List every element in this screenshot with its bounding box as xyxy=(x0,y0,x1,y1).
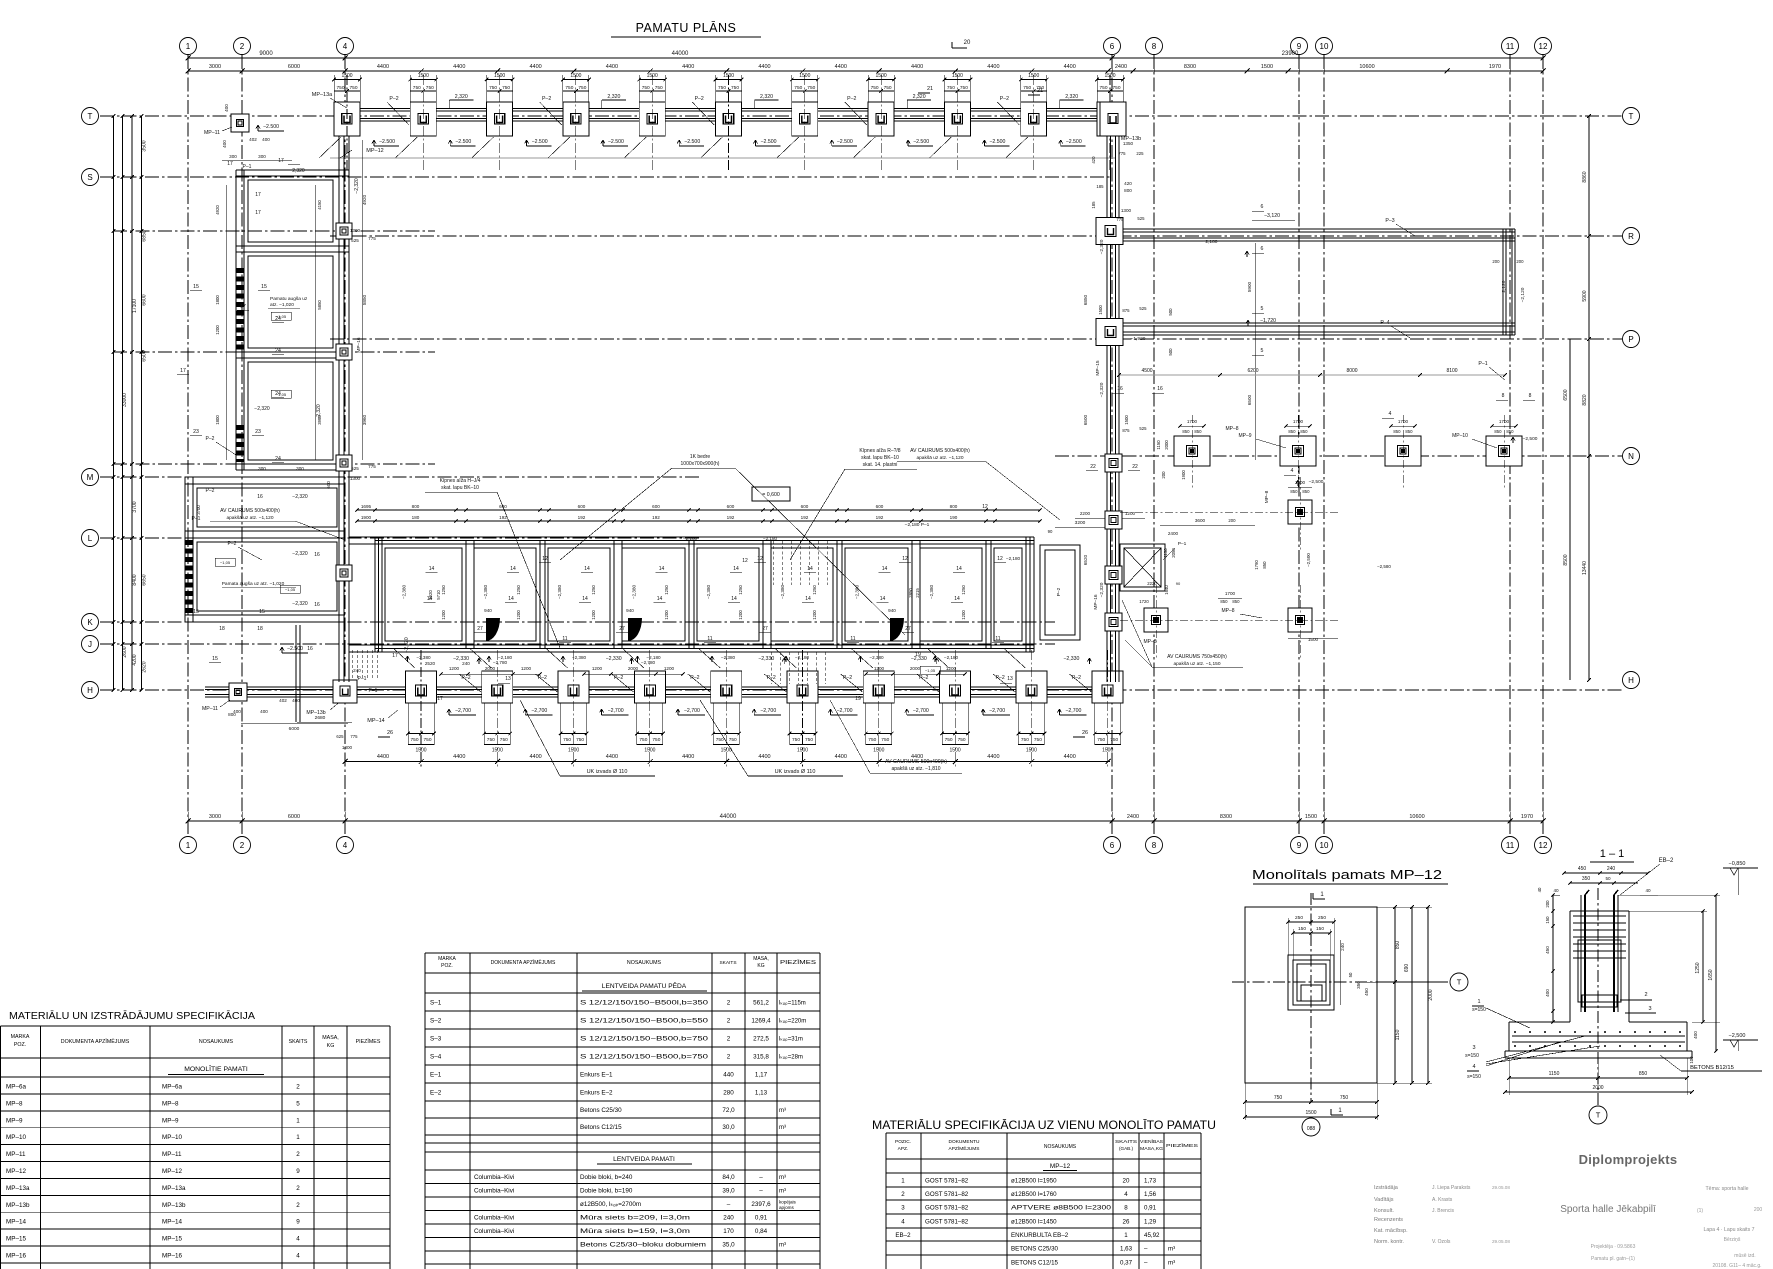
svg-text:1250: 1250 xyxy=(591,585,596,595)
svg-text:940: 940 xyxy=(626,608,634,613)
svg-text:16: 16 xyxy=(257,494,263,500)
svg-text:VIENĪBAS: VIENĪBAS xyxy=(1140,1139,1163,1144)
svg-text:1640: 1640 xyxy=(1164,585,1169,595)
svg-text:−2,380: −2,380 xyxy=(869,655,884,660)
svg-text:8300: 8300 xyxy=(1184,64,1196,70)
svg-text:4400: 4400 xyxy=(606,64,618,70)
svg-text:6600: 6600 xyxy=(142,294,148,305)
svg-text:750: 750 xyxy=(410,737,418,743)
svg-text:6: 6 xyxy=(1110,42,1115,51)
svg-text:14: 14 xyxy=(805,596,811,602)
svg-text:1700: 1700 xyxy=(1295,480,1306,485)
svg-text:MP–8: MP–8 xyxy=(6,1100,23,1107)
svg-text:15: 15 xyxy=(193,284,199,290)
svg-text:4400: 4400 xyxy=(758,754,770,760)
svg-text:14: 14 xyxy=(582,596,588,602)
svg-text:240: 240 xyxy=(462,661,470,666)
svg-text:1250: 1250 xyxy=(441,585,446,595)
svg-text:20: 20 xyxy=(964,40,971,46)
svg-text:1: 1 xyxy=(1477,999,1480,1005)
svg-text:1700: 1700 xyxy=(1187,419,1198,424)
svg-text:P–4: P–4 xyxy=(1380,320,1389,326)
svg-text:4400: 4400 xyxy=(377,754,389,760)
svg-text:P–2: P–2 xyxy=(695,96,704,102)
svg-text:MONOLĪTIE PAMATI: MONOLĪTIE PAMATI xyxy=(184,1065,248,1073)
svg-text:1150: 1150 xyxy=(1395,1029,1401,1040)
svg-text:Lapa 4 · Lapu skaits 7: Lapa 4 · Lapu skaits 7 xyxy=(1703,1227,1754,1233)
svg-text:750: 750 xyxy=(871,85,879,91)
svg-text:2000: 2000 xyxy=(485,666,496,671)
svg-text:2200: 2200 xyxy=(1080,511,1091,516)
svg-text:12: 12 xyxy=(1539,42,1548,51)
svg-text:2520: 2520 xyxy=(425,661,436,666)
svg-text:2000: 2000 xyxy=(628,666,639,671)
svg-text:16: 16 xyxy=(307,646,313,652)
svg-text:525: 525 xyxy=(351,466,359,471)
svg-text:MP–8: MP–8 xyxy=(162,1100,179,1107)
svg-text:14: 14 xyxy=(429,566,435,572)
svg-text:0,37: 0,37 xyxy=(1120,1259,1133,1266)
svg-text:1800: 1800 xyxy=(215,415,220,425)
svg-text:DOKUMENTA APZĪMĒJUMS: DOKUMENTA APZĪMĒJUMS xyxy=(61,1038,130,1045)
svg-text:15: 15 xyxy=(261,284,267,290)
svg-text:5850: 5850 xyxy=(317,300,322,310)
svg-text:4: 4 xyxy=(1389,411,1392,417)
svg-text:4400: 4400 xyxy=(987,64,999,70)
svg-text:525: 525 xyxy=(1139,426,1147,431)
svg-text:−2,380: −2,380 xyxy=(721,655,736,660)
svg-text:3: 3 xyxy=(1648,1006,1651,1012)
svg-text:4500: 4500 xyxy=(1141,368,1152,374)
svg-text:850: 850 xyxy=(1494,429,1502,434)
svg-text:800: 800 xyxy=(1124,188,1132,193)
svg-text:6520: 6520 xyxy=(1083,554,1088,565)
svg-text:−2,380: −2,380 xyxy=(632,584,637,599)
svg-text:775: 775 xyxy=(350,734,358,739)
svg-text:750: 750 xyxy=(868,737,876,743)
svg-text:402: 402 xyxy=(279,698,287,703)
svg-text:Enkurs E–1: Enkurs E–1 xyxy=(580,1071,613,1078)
svg-text:6000: 6000 xyxy=(288,64,300,70)
svg-text:170: 170 xyxy=(723,1228,734,1235)
svg-text:Monolītals pamats MP–12: Monolītals pamats MP–12 xyxy=(1252,867,1442,882)
svg-text:2,320: 2,320 xyxy=(1065,94,1078,100)
svg-text:600: 600 xyxy=(876,504,884,509)
svg-text:Betons C12/15: Betons C12/15 xyxy=(580,1124,622,1131)
svg-text:6500: 6500 xyxy=(1083,414,1088,425)
svg-text:Columbia–Kivi: Columbia–Kivi xyxy=(474,1174,514,1181)
svg-text:apakšā uz atz. −1,810: apakšā uz atz. −1,810 xyxy=(891,766,940,772)
svg-text:P–2: P–2 xyxy=(228,541,237,547)
svg-text:350: 350 xyxy=(1582,876,1591,882)
svg-text:1269,4: 1269,4 xyxy=(751,1017,771,1024)
svg-text:850: 850 xyxy=(1232,599,1240,604)
svg-text:2600: 2600 xyxy=(122,646,128,657)
svg-text:750: 750 xyxy=(881,737,889,743)
svg-text:750: 750 xyxy=(576,737,584,743)
svg-text:MATERIĀLU SPECIFIKĀCIJA UZ VIE: MATERIĀLU SPECIFIKĀCIJA UZ VIENU MONOLĪT… xyxy=(872,1118,1216,1132)
svg-text:2400: 2400 xyxy=(1127,814,1139,820)
svg-text:MP–13a: MP–13a xyxy=(162,1185,186,1192)
svg-text:1300: 1300 xyxy=(342,745,353,750)
svg-text:525: 525 xyxy=(1137,216,1145,221)
svg-text:APZ.: APZ. xyxy=(898,1146,909,1152)
svg-text:8000: 8000 xyxy=(1346,368,1357,374)
svg-text:750: 750 xyxy=(960,85,968,91)
svg-text:POZ.: POZ. xyxy=(441,963,453,969)
svg-text:2220: 2220 xyxy=(1147,581,1157,586)
svg-text:750: 750 xyxy=(716,737,724,743)
svg-text:1500: 1500 xyxy=(1305,1110,1316,1116)
svg-text:2: 2 xyxy=(296,1151,300,1158)
svg-text:200: 200 xyxy=(1545,900,1550,908)
svg-text:Mūra siets b=159, l=3,0m: Mūra siets b=159, l=3,0m xyxy=(580,1228,690,1235)
svg-text:MP–6a: MP–6a xyxy=(6,1084,26,1091)
svg-text:1500: 1500 xyxy=(647,73,658,79)
svg-text:3600: 3600 xyxy=(1195,518,1206,523)
svg-text:180: 180 xyxy=(412,515,420,520)
svg-text:8500: 8500 xyxy=(1563,554,1569,565)
svg-text:1,13: 1,13 xyxy=(755,1089,768,1096)
svg-text:1500: 1500 xyxy=(950,748,961,754)
svg-text:5900: 5900 xyxy=(1247,281,1252,292)
svg-text:400: 400 xyxy=(1693,1031,1698,1039)
svg-text:1500: 1500 xyxy=(1098,305,1103,315)
svg-text:−2,180: −2,180 xyxy=(944,655,959,660)
svg-text:−2,320: −2,320 xyxy=(1099,582,1105,597)
svg-text:MP–10: MP–10 xyxy=(162,1134,182,1141)
svg-text:−2,180: −2,180 xyxy=(1203,239,1218,245)
svg-text:23: 23 xyxy=(255,429,261,435)
svg-text:BETONS C12/15: BETONS C12/15 xyxy=(1011,1259,1059,1266)
svg-text:ø12B500 l=1760: ø12B500 l=1760 xyxy=(1011,1191,1057,1198)
svg-text:−2,380: −2,380 xyxy=(416,655,431,660)
svg-text:4400: 4400 xyxy=(529,64,541,70)
svg-text:MP–14: MP–14 xyxy=(6,1219,26,1226)
svg-text:850: 850 xyxy=(1300,429,1308,434)
svg-text:−2,380: −2,380 xyxy=(780,584,785,599)
svg-text:850: 850 xyxy=(1506,429,1514,434)
svg-text:1150: 1150 xyxy=(1549,1071,1560,1077)
svg-text:14: 14 xyxy=(657,596,663,602)
svg-text:−2,320: −2,320 xyxy=(292,601,308,607)
svg-text:400: 400 xyxy=(224,104,229,112)
svg-text:1700: 1700 xyxy=(1293,419,1304,424)
svg-text:875: 875 xyxy=(1122,428,1130,433)
svg-text:5: 5 xyxy=(296,1100,300,1107)
svg-text:2000: 2000 xyxy=(910,666,921,671)
svg-text:Kat. mācībsp.: Kat. mācībsp. xyxy=(1374,1228,1408,1234)
svg-text:315,8: 315,8 xyxy=(753,1053,769,1060)
svg-text:R: R xyxy=(1628,232,1634,241)
svg-text:2400: 2400 xyxy=(1115,64,1127,70)
svg-text:850: 850 xyxy=(1639,1071,1648,1077)
svg-text:17: 17 xyxy=(180,368,186,374)
svg-text:KG: KG xyxy=(757,963,764,969)
svg-text:150: 150 xyxy=(1298,926,1306,932)
svg-text:−2,180: −2,180 xyxy=(1006,556,1021,561)
svg-text:−2,380: −2,380 xyxy=(855,584,860,599)
svg-text:MP–13a: MP–13a xyxy=(6,1185,30,1192)
svg-text:BETONS C25/30: BETONS C25/30 xyxy=(1011,1245,1059,1252)
svg-text:600: 600 xyxy=(727,504,735,509)
svg-text:2,320: 2,320 xyxy=(455,94,468,100)
svg-text:−2,380: −2,380 xyxy=(706,584,711,599)
svg-text:150: 150 xyxy=(1545,916,1550,924)
svg-text:10600: 10600 xyxy=(1359,64,1374,70)
svg-text:90: 90 xyxy=(1048,529,1053,534)
svg-text:1000x700x900(h): 1000x700x900(h) xyxy=(681,461,720,467)
svg-text:750: 750 xyxy=(652,737,660,743)
svg-text:P–1: P–1 xyxy=(369,688,378,694)
svg-text:−2.500: −2.500 xyxy=(608,139,624,145)
svg-text:MP–16: MP–16 xyxy=(356,337,362,353)
svg-text:1: 1 xyxy=(296,1134,300,1141)
svg-text:2: 2 xyxy=(240,841,245,850)
svg-text:450: 450 xyxy=(1364,988,1369,996)
svg-text:2215: 2215 xyxy=(915,588,920,598)
svg-text:MP–10: MP–10 xyxy=(1452,433,1468,439)
svg-text:EB–2: EB–2 xyxy=(1659,858,1674,864)
svg-text:3200: 3200 xyxy=(1075,520,1086,526)
svg-text:1500: 1500 xyxy=(797,748,808,754)
svg-text:J. Liepa Paraksts: J. Liepa Paraksts xyxy=(1432,1185,1471,1191)
svg-text:750: 750 xyxy=(807,85,815,91)
svg-text:MP–16: MP–16 xyxy=(1093,594,1099,610)
svg-text:1 – 1: 1 – 1 xyxy=(1600,848,1624,860)
svg-text:1500: 1500 xyxy=(341,73,352,79)
svg-text:MP–16: MP–16 xyxy=(162,1253,182,1260)
svg-text:750: 750 xyxy=(1112,85,1120,91)
svg-text:MP–8: MP–8 xyxy=(1225,426,1238,432)
svg-text:850: 850 xyxy=(1405,429,1413,434)
svg-text:11: 11 xyxy=(1506,841,1515,850)
svg-text:1500: 1500 xyxy=(570,73,581,79)
svg-text:14: 14 xyxy=(882,566,888,572)
svg-text:2397,6: 2397,6 xyxy=(751,1201,771,1208)
svg-text:750: 750 xyxy=(578,85,586,91)
svg-text:150: 150 xyxy=(1316,926,1324,932)
svg-text:240: 240 xyxy=(723,1215,734,1222)
svg-text:LENTVEIDA PAMATU PĒDA: LENTVEIDA PAMATU PĒDA xyxy=(602,982,687,990)
svg-text:5: 5 xyxy=(1261,306,1264,312)
svg-text:Pamatu augša uz: Pamatu augša uz xyxy=(270,296,308,302)
svg-text:17100: 17100 xyxy=(132,299,138,313)
svg-text:1: 1 xyxy=(901,1177,905,1184)
svg-text:−2,780: −2,780 xyxy=(641,660,656,665)
svg-text:3960: 3960 xyxy=(362,414,367,425)
svg-text:400: 400 xyxy=(233,709,241,714)
svg-text:P–2: P–2 xyxy=(542,96,551,102)
svg-text:−2.500: −2.500 xyxy=(913,139,929,145)
svg-text:6500: 6500 xyxy=(1247,394,1252,405)
svg-text:Kīpnes aīža R–?/8: Kīpnes aīža R–?/8 xyxy=(859,448,900,454)
svg-text:Recenzents: Recenzents xyxy=(1374,1217,1403,1223)
svg-text:750: 750 xyxy=(1110,737,1118,743)
svg-text:m³: m³ xyxy=(779,1175,786,1181)
svg-text:−2,500: −2,500 xyxy=(1729,1033,1746,1039)
svg-text:1720: 1720 xyxy=(1139,599,1149,604)
svg-text:P–1: P–1 xyxy=(1178,541,1187,547)
svg-text:4400: 4400 xyxy=(1064,754,1076,760)
svg-text:850: 850 xyxy=(1290,489,1298,494)
svg-text:−2,320: −2,320 xyxy=(289,168,305,174)
svg-text:J. Brencis: J. Brencis xyxy=(1432,1208,1454,1214)
svg-text:44000: 44000 xyxy=(672,51,689,57)
svg-text:2050: 2050 xyxy=(1171,548,1176,558)
svg-text:MP–15: MP–15 xyxy=(6,1236,26,1243)
svg-text:17: 17 xyxy=(278,158,284,164)
svg-text:3000: 3000 xyxy=(209,814,221,820)
svg-text:GOST 5781–82: GOST 5781–82 xyxy=(925,1191,969,1198)
svg-text:MP–12: MP–12 xyxy=(162,1168,182,1175)
svg-text:29.05.08: 29.05.08 xyxy=(1492,1185,1510,1190)
svg-text:Columbia–Kivi: Columbia–Kivi xyxy=(474,1215,514,1222)
svg-text:33000: 33000 xyxy=(122,393,128,407)
svg-text:750: 750 xyxy=(884,85,892,91)
svg-text:−2,330: −2,330 xyxy=(1063,656,1079,662)
svg-text:−0,850: −0,850 xyxy=(1729,861,1746,867)
svg-text:1250: 1250 xyxy=(961,585,966,595)
svg-text:= 0,600: = 0,600 xyxy=(762,492,780,498)
svg-text:6200: 6200 xyxy=(1247,368,1258,374)
svg-text:2,320: 2,320 xyxy=(607,94,620,100)
svg-text:PIEZĪMES: PIEZĪMES xyxy=(780,959,817,966)
svg-text:850: 850 xyxy=(1262,561,1267,569)
svg-text:750: 750 xyxy=(1034,737,1042,743)
svg-text:240: 240 xyxy=(1607,866,1616,872)
svg-text:850: 850 xyxy=(1194,429,1202,434)
svg-text:−2,380: −2,380 xyxy=(483,584,488,599)
svg-text:−2,380: −2,380 xyxy=(402,584,407,599)
svg-text:S 12/12/150/150−B500l,b=350: S 12/12/150/150−B500l,b=350 xyxy=(580,999,709,1006)
svg-text:088: 088 xyxy=(1307,1126,1316,1132)
svg-text:27: 27 xyxy=(477,626,483,632)
svg-text:1150: 1150 xyxy=(1163,548,1168,558)
svg-text:MP–14: MP–14 xyxy=(162,1219,182,1226)
svg-text:23900: 23900 xyxy=(1282,51,1299,57)
svg-text:750: 750 xyxy=(1023,85,1031,91)
svg-text:S 12/12/150/150−B500,b=750: S 12/12/150/150−B500,b=750 xyxy=(580,1053,709,1060)
svg-text:402: 402 xyxy=(249,137,257,142)
svg-text:1250: 1250 xyxy=(664,585,669,595)
svg-text:12: 12 xyxy=(902,556,908,562)
svg-text:3500: 3500 xyxy=(142,140,148,151)
svg-text:2: 2 xyxy=(727,999,731,1006)
svg-text:750: 750 xyxy=(349,85,357,91)
svg-text:4: 4 xyxy=(296,1236,300,1243)
svg-text:Pamatu pl. gatn–(1): Pamatu pl. gatn–(1) xyxy=(1591,1256,1635,1262)
svg-text:12: 12 xyxy=(982,504,988,510)
svg-text:AV CAURUMS 750x450(h): AV CAURUMS 750x450(h) xyxy=(1167,654,1227,660)
svg-text:850: 850 xyxy=(1288,429,1296,434)
svg-text:500: 500 xyxy=(1168,348,1173,356)
svg-text:Norm. kontr.: Norm. kontr. xyxy=(1374,1239,1404,1245)
svg-text:8: 8 xyxy=(1152,841,1157,850)
svg-text:20: 20 xyxy=(1123,1177,1130,1184)
svg-text:H: H xyxy=(1628,676,1634,685)
svg-text:−2,180 P–1: −2,180 P–1 xyxy=(905,522,930,528)
svg-text:750: 750 xyxy=(1097,737,1105,743)
svg-text:10: 10 xyxy=(1320,841,1329,850)
svg-text:−2,700: −2,700 xyxy=(455,708,471,714)
svg-text:29.05.08: 29.05.08 xyxy=(1492,1239,1510,1244)
svg-text:UK izvads Ø 110: UK izvads Ø 110 xyxy=(587,769,628,775)
svg-text:P–2: P–2 xyxy=(206,436,215,442)
svg-text:2: 2 xyxy=(240,42,245,51)
svg-text:4400: 4400 xyxy=(987,754,999,760)
svg-text:4400: 4400 xyxy=(606,754,618,760)
svg-text:−2.500: −2.500 xyxy=(760,139,776,145)
svg-text:1900: 1900 xyxy=(1181,470,1186,480)
svg-text:AV CAURUMS 500x400(h): AV CAURUMS 500x400(h) xyxy=(885,759,947,765)
svg-text:17: 17 xyxy=(392,653,398,659)
svg-text:1970: 1970 xyxy=(1521,814,1533,820)
svg-text:44000: 44000 xyxy=(720,814,737,820)
svg-text:4: 4 xyxy=(343,841,348,850)
svg-text:kopējais: kopējais xyxy=(779,1200,797,1205)
svg-text:P–2: P–2 xyxy=(1000,96,1009,102)
svg-text:4150: 4150 xyxy=(317,200,322,210)
svg-text:17: 17 xyxy=(227,161,233,167)
svg-text:15: 15 xyxy=(212,656,218,662)
svg-text:17: 17 xyxy=(437,696,443,702)
svg-text:MP–16: MP–16 xyxy=(6,1253,26,1260)
svg-text:T: T xyxy=(88,112,93,121)
svg-text:1200: 1200 xyxy=(521,666,532,671)
svg-text:72,0: 72,0 xyxy=(722,1107,735,1114)
svg-text:MP–12: MP–12 xyxy=(366,148,383,154)
svg-text:4920: 4920 xyxy=(362,194,367,205)
svg-text:8820: 8820 xyxy=(1582,394,1588,405)
svg-text:14: 14 xyxy=(733,566,739,572)
svg-text:192: 192 xyxy=(499,515,507,520)
svg-text:−2.500: −2.500 xyxy=(1066,139,1082,145)
svg-text:750: 750 xyxy=(1021,737,1029,743)
svg-text:1200: 1200 xyxy=(946,666,957,671)
svg-text:17: 17 xyxy=(255,192,261,198)
svg-text:MP–15: MP–15 xyxy=(1095,360,1101,376)
svg-text:250: 250 xyxy=(1295,915,1303,921)
svg-text:192: 192 xyxy=(578,515,586,520)
svg-text:1500: 1500 xyxy=(1028,73,1039,79)
svg-text:6650: 6650 xyxy=(142,574,148,585)
svg-text:850: 850 xyxy=(1182,429,1190,434)
svg-text:225: 225 xyxy=(1136,151,1144,156)
svg-text:40: 40 xyxy=(1553,888,1559,893)
svg-text:skat. lapu BK–10: skat. lapu BK–10 xyxy=(441,485,479,491)
svg-text:MP–14: MP–14 xyxy=(367,718,384,724)
svg-text:750: 750 xyxy=(1340,1095,1349,1101)
svg-text:14: 14 xyxy=(807,566,813,572)
svg-text:1,56: 1,56 xyxy=(1144,1191,1157,1198)
svg-text:1500: 1500 xyxy=(1261,64,1273,70)
svg-text:750: 750 xyxy=(958,737,966,743)
svg-text:192: 192 xyxy=(801,515,809,520)
svg-text:Pamata augša uz atz. −1,020: Pamata augša uz atz. −1,020 xyxy=(222,581,285,587)
svg-text:18: 18 xyxy=(257,626,263,632)
svg-text:P–2: P–2 xyxy=(389,96,398,102)
svg-text:1200: 1200 xyxy=(874,666,885,671)
svg-text:PIEZĪMES: PIEZĪMES xyxy=(356,1038,381,1045)
svg-text:MATERIĀLU UN IZSTRĀDĀJUMU SPEC: MATERIĀLU UN IZSTRĀDĀJUMU SPECIFIKĀCIJA xyxy=(9,1010,255,1022)
svg-text:12: 12 xyxy=(742,558,748,564)
svg-text:1500: 1500 xyxy=(644,748,655,754)
svg-text:1700: 1700 xyxy=(1398,419,1409,424)
svg-text:Mūra siets b=209, l=3,0m: Mūra siets b=209, l=3,0m xyxy=(580,1215,690,1222)
svg-text:192: 192 xyxy=(727,515,735,520)
svg-text:6850: 6850 xyxy=(1083,294,1088,305)
